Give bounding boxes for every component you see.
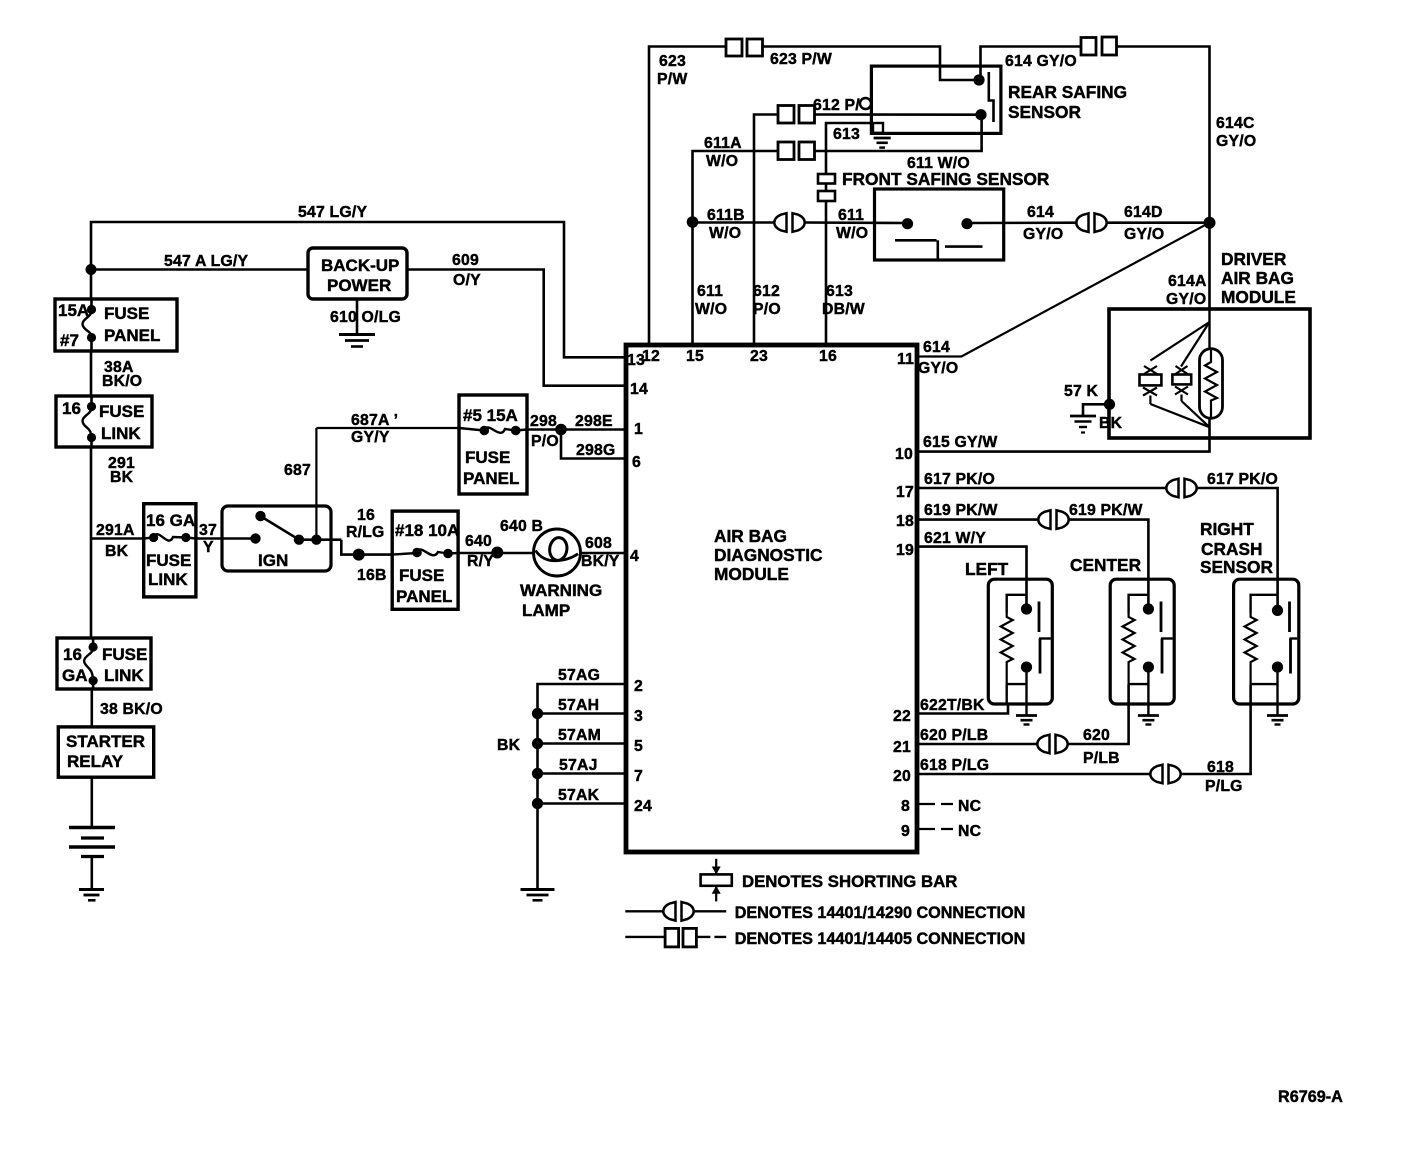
svg-text:P/LG: P/LG — [1205, 778, 1243, 795]
wire 613 DB/W pin16 — [822, 123, 873, 345]
svg-text:57 K: 57 K — [1064, 383, 1099, 400]
svg-text:NC: NC — [958, 798, 981, 815]
svg-text:PANEL: PANEL — [463, 469, 519, 488]
legend 14405 connector symbol — [625, 928, 1025, 948]
connector 14405 on 611A — [778, 142, 815, 160]
svg-text:LINK: LINK — [148, 570, 188, 589]
svg-text:38 BK/O: 38 BK/O — [100, 701, 163, 718]
svg-text:16: 16 — [819, 348, 837, 365]
svg-text:21: 21 — [893, 739, 911, 756]
svg-text:623: 623 — [659, 53, 686, 70]
svg-text:11: 11 — [897, 351, 914, 368]
svg-text:612: 612 — [753, 283, 780, 300]
svg-text:R/LG: R/LG — [346, 524, 385, 541]
svg-text:24: 24 — [634, 798, 652, 815]
svg-text:619 PK/W: 619 PK/W — [924, 502, 998, 519]
svg-text:14: 14 — [630, 381, 648, 398]
svg-text:GY/Y: GY/Y — [351, 429, 390, 446]
svg-text:DENOTES 14401/14405 CONNECTION: DENOTES 14401/14405 CONNECTION — [735, 930, 1026, 948]
wire 298G pin6 — [561, 430, 626, 460]
wire 57AH pin3 — [538, 697, 627, 714]
legend shorting bar symbol — [701, 859, 958, 902]
svg-text:BK/O: BK/O — [102, 373, 142, 390]
svg-text:4: 4 — [630, 548, 639, 565]
svg-text:AIR BAG: AIR BAG — [1221, 268, 1294, 288]
svg-text:12: 12 — [642, 348, 660, 365]
svg-text:614: 614 — [923, 339, 950, 356]
svg-text:FUSE: FUSE — [399, 566, 444, 585]
svg-text:687: 687 — [284, 462, 311, 479]
ground backup power — [339, 335, 375, 347]
label 611A W/O — [704, 135, 742, 170]
wire 619 PK/W pin18 — [917, 502, 1039, 520]
wire relay to battery — [91, 777, 94, 827]
wire 291A BK — [91, 522, 143, 560]
svg-text:W/O: W/O — [836, 225, 868, 242]
svg-text:GY/O: GY/O — [1124, 226, 1164, 243]
wire 617 PK/O to right sensor — [1196, 471, 1278, 610]
label right crash sensor — [1200, 519, 1274, 577]
wire 57AK pin24 — [538, 787, 627, 804]
fuse link FL1 16 — [56, 396, 152, 447]
svg-text:W/O: W/O — [706, 153, 738, 170]
wire 57 BK — [1083, 404, 1123, 432]
svg-text:BK: BK — [105, 543, 129, 560]
wire 617 PK/O pin17 — [917, 471, 1167, 488]
wire 620 P/LB to center sensor — [1067, 684, 1129, 767]
svg-text:FUSE: FUSE — [99, 402, 144, 421]
connector 14290 on 619 — [1038, 510, 1068, 529]
svg-text:640 B: 640 B — [500, 518, 543, 535]
wire 611 W/O to front safing — [804, 207, 908, 242]
connector 14290 on 618 — [1150, 765, 1180, 784]
shorting bar on 613 upper — [818, 174, 835, 184]
svg-text:LAMP: LAMP — [522, 601, 570, 620]
wire vertical to fuse panel — [90, 270, 93, 301]
svg-text:547 A LG/Y: 547 A LG/Y — [164, 253, 248, 270]
fuse panel F1 15A #7 — [55, 299, 177, 351]
svg-text:547 LG/Y: 547 LG/Y — [298, 204, 367, 221]
node junction 57AK — [532, 798, 543, 809]
wire pin8 NC — [919, 798, 981, 815]
svg-text:CRASH: CRASH — [1201, 539, 1262, 559]
svg-text:#18 10A: #18 10A — [395, 521, 459, 540]
wire battery to ground — [91, 857, 94, 890]
svg-text:22: 22 — [893, 708, 911, 725]
wire 611 W/O to rear safing — [815, 115, 982, 172]
svg-text:GY/O: GY/O — [1023, 226, 1063, 243]
svg-text:DENOTES 14401/14290 CONNECTION: DENOTES 14401/14290 CONNECTION — [735, 904, 1026, 922]
ground left sensor — [1016, 716, 1037, 725]
wire 623 P/W pin12 — [649, 47, 726, 346]
wire 298 P/O — [527, 413, 561, 450]
svg-text:298G: 298G — [576, 442, 615, 459]
fuse panel F3 #5 15A — [459, 395, 527, 494]
connector 14290 on 614D — [1076, 213, 1106, 232]
wire BK to ground — [497, 714, 538, 890]
svg-text:NC: NC — [958, 823, 981, 840]
battery — [69, 828, 115, 857]
label driver air bag module — [1221, 249, 1296, 307]
svg-text:R6769-A: R6769-A — [1278, 1088, 1343, 1106]
wire 37 Y — [196, 522, 222, 556]
svg-text:W/O: W/O — [709, 225, 741, 242]
svg-text:LEFT: LEFT — [965, 559, 1009, 579]
svg-text:16: 16 — [63, 645, 82, 664]
svg-text:298: 298 — [530, 413, 557, 430]
connector 14405 on 623 — [726, 39, 763, 56]
svg-text:6: 6 — [632, 454, 641, 471]
svg-text:R/Y: R/Y — [467, 553, 494, 570]
svg-text:5: 5 — [634, 738, 643, 755]
wire 614 GY/O from front safing — [967, 204, 1078, 243]
svg-text:620: 620 — [1083, 727, 1110, 744]
svg-text:620 P/LB: 620 P/LB — [920, 727, 988, 744]
svg-text:611: 611 — [838, 207, 864, 224]
center crash sensor S4 — [1110, 579, 1174, 715]
svg-text:608: 608 — [585, 535, 612, 552]
wire 623 P/W to rear safing — [763, 47, 980, 81]
wire pin9 NC — [919, 823, 981, 840]
wire 610 O/LG — [330, 299, 401, 334]
svg-text:IGN: IGN — [258, 551, 288, 570]
wire 621 W/Y pin19 — [917, 530, 1027, 609]
node junction 547A — [86, 264, 97, 275]
svg-text:#7: #7 — [60, 331, 79, 350]
svg-text:3: 3 — [634, 708, 643, 725]
node junction 16B — [353, 549, 365, 561]
node case ground 57K — [1064, 383, 1115, 410]
svg-text:GY/O: GY/O — [1216, 133, 1256, 150]
svg-text:7: 7 — [634, 768, 643, 785]
wire 612 P/O pin23 — [753, 115, 781, 346]
wire 640 R/Y — [458, 518, 543, 570]
squib 2 — [1172, 366, 1209, 427]
ground center sensor — [1138, 716, 1159, 725]
node junction 298 — [555, 424, 567, 436]
squib 1 — [1140, 366, 1210, 427]
svg-text:P/LB: P/LB — [1083, 750, 1120, 767]
svg-text:FUSE: FUSE — [104, 304, 149, 323]
wire 618 P/LG to right sensor — [1180, 684, 1251, 795]
wire 57AJ pin7 — [538, 757, 627, 774]
ground driver module case — [1070, 416, 1096, 433]
svg-text:P/O: P/O — [531, 433, 559, 450]
svg-text:57AG: 57AG — [558, 667, 600, 684]
svg-text:611B: 611B — [707, 207, 745, 224]
svg-text:57AH: 57AH — [558, 697, 599, 714]
svg-text:SENSOR: SENSOR — [1200, 557, 1274, 577]
wire 612 P/O to rear safing — [813, 97, 981, 115]
svg-text:687A ’: 687A ’ — [351, 412, 398, 429]
connector 14290 on 620 — [1037, 735, 1067, 754]
svg-text:RELAY: RELAY — [67, 752, 124, 771]
wire 620 P/LB pin21 — [917, 727, 1038, 744]
wire 611 W/O pin15 — [693, 151, 779, 345]
wire 611B W/O — [693, 207, 777, 242]
wire 614C GY/O — [1117, 47, 1257, 223]
wire 547A LG/Y — [91, 253, 308, 270]
svg-text:LINK: LINK — [101, 424, 141, 443]
svg-text:610 O/LG: 610 O/LG — [330, 309, 401, 326]
svg-text:PANEL: PANEL — [396, 587, 452, 606]
svg-text:291A: 291A — [96, 522, 135, 539]
svg-text:16: 16 — [357, 507, 375, 524]
node junction 614 — [1204, 217, 1216, 229]
connector 14290 on 611 — [774, 213, 804, 232]
wire 298E pin1 — [561, 413, 626, 430]
svg-text:615 GY/W: 615 GY/W — [923, 434, 997, 451]
svg-text:GY/O: GY/O — [1166, 291, 1206, 308]
rear safing sensor S1 — [860, 66, 1127, 133]
svg-text:16 GA: 16 GA — [146, 511, 195, 530]
svg-text:#5 15A: #5 15A — [463, 406, 518, 425]
wire 622 T/BK pin22 — [917, 684, 1008, 714]
svg-text:DENOTES SHORTING BAR: DENOTES SHORTING BAR — [742, 872, 957, 891]
svg-text:611: 611 — [697, 283, 723, 300]
ground right sensor — [1267, 716, 1288, 725]
wire 609 O/Y — [407, 252, 626, 386]
svg-text:617 PK/O: 617 PK/O — [1207, 471, 1278, 488]
shorting bar on 613 lower — [818, 191, 835, 201]
ground rear safing — [874, 138, 891, 148]
svg-text:18: 18 — [896, 513, 914, 530]
svg-text:618: 618 — [1207, 759, 1234, 776]
wire 547 LG/Y — [91, 204, 626, 357]
air bag diagnostic module U1 — [626, 345, 917, 852]
svg-text:2: 2 — [634, 678, 643, 695]
svg-text:611A: 611A — [704, 135, 742, 152]
svg-text:W/O: W/O — [695, 301, 727, 318]
ground bk block — [521, 890, 555, 901]
svg-text:RIGHT: RIGHT — [1200, 519, 1254, 539]
svg-text:BK: BK — [497, 737, 521, 754]
wire 38A BK/O — [91, 351, 142, 396]
svg-text:57AJ: 57AJ — [559, 757, 598, 774]
svg-text:10: 10 — [895, 446, 913, 463]
wire 618 P/LG pin20 — [917, 757, 1151, 774]
wire 57AM pin5 — [538, 727, 627, 744]
svg-text:17: 17 — [896, 484, 914, 501]
svg-text:FUSE: FUSE — [146, 551, 191, 570]
node junction 611B — [687, 216, 699, 228]
svg-text:MODULE: MODULE — [1221, 287, 1296, 307]
warning lamp — [520, 529, 602, 620]
node junction 640 — [491, 547, 503, 559]
svg-text:614: 614 — [1027, 204, 1054, 221]
connector 14405 on 612 — [778, 106, 815, 124]
left crash sensor S3 — [988, 579, 1052, 715]
starter relay — [58, 727, 153, 777]
svg-text:Y: Y — [203, 539, 214, 556]
wire 57AG pin2 — [538, 667, 627, 714]
svg-text:57AM: 57AM — [558, 727, 601, 744]
svg-text:BK: BK — [1099, 415, 1123, 432]
svg-text:15A: 15A — [58, 301, 89, 320]
svg-text:CENTER: CENTER — [1070, 555, 1142, 575]
front safing sensor S2 — [875, 189, 1004, 260]
svg-text:FUSE: FUSE — [102, 645, 147, 664]
svg-text:1: 1 — [634, 421, 643, 438]
wire 614 GY/O diagonal to pin11 — [917, 223, 1210, 377]
svg-text:20: 20 — [893, 768, 911, 785]
right crash sensor S5 — [1234, 579, 1299, 715]
svg-text:GA: GA — [62, 666, 88, 685]
svg-text:37: 37 — [199, 522, 217, 539]
svg-text:8: 8 — [901, 798, 910, 815]
wire squib return to pin10 — [917, 418, 1210, 452]
svg-text:622T/BK: 622T/BK — [920, 697, 985, 714]
svg-text:POWER: POWER — [327, 276, 391, 295]
fuse link FL2 16 GA — [144, 504, 196, 597]
wire 38 BK/O — [92, 689, 163, 727]
svg-text:MODULE: MODULE — [714, 564, 789, 584]
wire 619 PK/W to center sensor — [1068, 502, 1148, 609]
svg-text:9: 9 — [901, 823, 910, 840]
driver air bag module U2 — [1109, 309, 1310, 438]
wire 291 BK — [91, 447, 135, 638]
connector 14405 on 614 — [1081, 37, 1117, 55]
wire 687 — [284, 428, 316, 540]
svg-text:P/W: P/W — [657, 71, 687, 88]
svg-text:57AK: 57AK — [558, 787, 600, 804]
svg-text:15: 15 — [686, 348, 704, 365]
wire 614 GY/O top — [981, 47, 1082, 81]
svg-text:WARNING: WARNING — [520, 581, 602, 600]
legend 14290 connector symbol — [625, 902, 1025, 922]
svg-text:640: 640 — [465, 533, 492, 550]
svg-text:O/Y: O/Y — [453, 272, 481, 289]
svg-text:16B: 16B — [357, 567, 387, 584]
back-up power module — [308, 248, 407, 299]
svg-text:618 P/LG: 618 P/LG — [920, 757, 989, 774]
svg-text:BK: BK — [110, 469, 134, 486]
wire 608 BK/Y pin4 — [581, 535, 626, 570]
svg-text:23: 23 — [750, 348, 768, 365]
svg-text:FUSE: FUSE — [465, 448, 510, 467]
svg-text:613: 613 — [826, 283, 853, 300]
svg-text:DB/W: DB/W — [822, 301, 865, 318]
node junction 57AJ — [532, 768, 543, 779]
fuse link FL3 16 GA bottom — [57, 638, 151, 689]
svg-text:19: 19 — [896, 542, 914, 559]
wire 16 R/LG 16B — [341, 507, 392, 584]
svg-text:AIR BAG: AIR BAG — [714, 526, 787, 546]
svg-text:621 W/Y: 621 W/Y — [924, 530, 986, 547]
ignition switch IGN — [222, 506, 341, 571]
svg-text:623 P/W: 623 P/W — [770, 51, 832, 68]
svg-text:P/O: P/O — [753, 301, 781, 318]
svg-text:16: 16 — [62, 399, 81, 418]
wire 614A GY/O — [1166, 223, 1210, 309]
svg-text:BACK-UP: BACK-UP — [321, 256, 399, 275]
svg-text:617 PK/O: 617 PK/O — [924, 471, 995, 488]
wire 687A GY/Y — [316, 412, 459, 446]
svg-text:SENSOR: SENSOR — [1008, 102, 1082, 122]
svg-text:614 GY/O: 614 GY/O — [1005, 53, 1077, 70]
svg-text:GY/O: GY/O — [918, 360, 958, 377]
svg-text:609: 609 — [452, 252, 479, 269]
svg-text:LINK: LINK — [104, 666, 144, 685]
svg-text:STARTER: STARTER — [66, 732, 145, 751]
svg-text:DRIVER: DRIVER — [1221, 249, 1287, 269]
svg-text:PANEL: PANEL — [104, 326, 160, 345]
ground battery — [79, 890, 104, 901]
svg-text:BK/Y: BK/Y — [581, 553, 620, 570]
svg-text:613: 613 — [833, 126, 860, 143]
svg-text:DIAGNOSTIC: DIAGNOSTIC — [714, 545, 823, 565]
svg-text:FRONT SAFING SENSOR: FRONT SAFING SENSOR — [842, 169, 1050, 189]
svg-text:619 PK/W: 619 PK/W — [1069, 502, 1143, 519]
svg-text:REAR SAFING: REAR SAFING — [1008, 82, 1127, 102]
connector 14290 on 617 — [1166, 479, 1196, 498]
node junction 57AM — [532, 738, 543, 749]
inflator resistor capsule — [1200, 349, 1223, 419]
fuse panel F2 #18 10A — [392, 511, 459, 609]
svg-text:614D: 614D — [1124, 204, 1163, 221]
wire 614D GY/O — [1106, 204, 1210, 243]
node junction 57AH — [532, 708, 543, 719]
svg-text:614A: 614A — [1168, 273, 1207, 290]
svg-text:298E: 298E — [575, 413, 613, 430]
svg-text:614C: 614C — [1216, 115, 1255, 132]
